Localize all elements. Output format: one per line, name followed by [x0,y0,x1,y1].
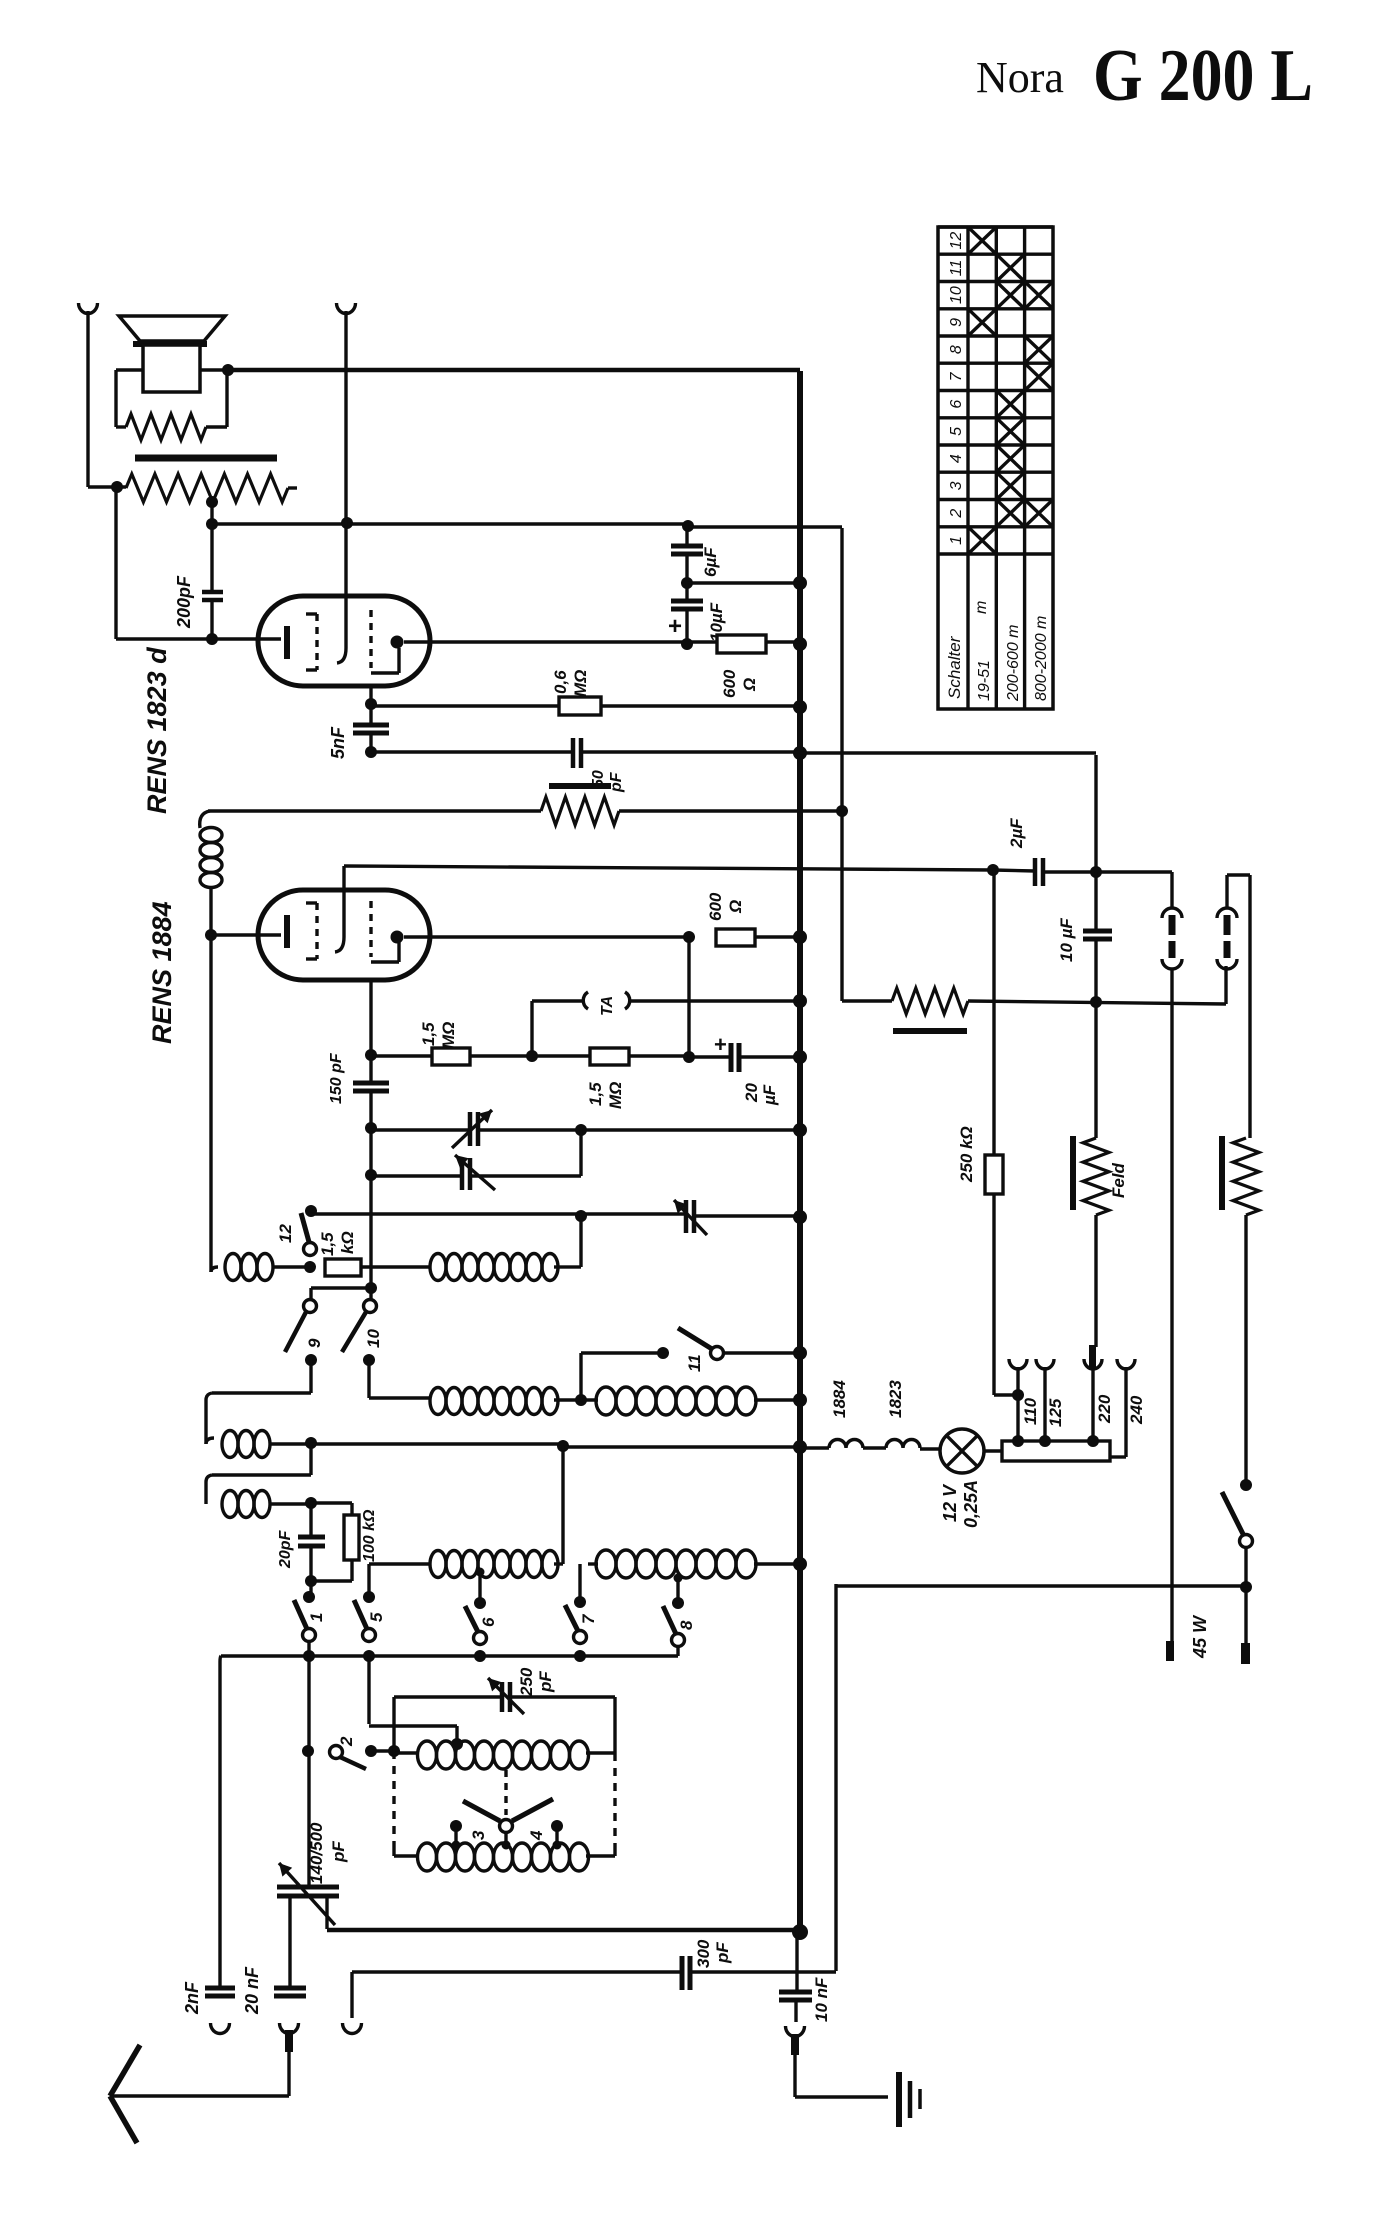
svg-text:MΩ: MΩ [606,1082,625,1109]
svg-text:0,25A: 0,25A [961,1480,981,1528]
svg-text:6: 6 [948,400,965,409]
svg-text:2: 2 [948,509,965,519]
svg-text:20: 20 [742,1083,761,1103]
svg-text:150 pF: 150 pF [328,1052,345,1104]
svg-text:6µF: 6µF [701,547,720,577]
svg-text:600: 600 [706,892,725,921]
svg-text:Ω: Ω [740,678,759,692]
svg-text:Feld: Feld [1109,1162,1128,1198]
svg-text:1,5: 1,5 [586,1082,605,1106]
svg-text:G 200 L: G 200 L [1093,35,1313,117]
svg-text:12 V: 12 V [940,1483,960,1522]
svg-text:250 kΩ: 250 kΩ [957,1126,976,1183]
svg-text:m: m [973,601,990,614]
svg-text:1,5: 1,5 [419,1022,438,1046]
svg-text:kΩ: kΩ [338,1231,357,1254]
svg-text:240: 240 [1127,1395,1146,1425]
svg-text:1: 1 [307,1613,326,1622]
svg-text:1: 1 [948,536,965,545]
svg-text:9: 9 [948,318,965,327]
svg-text:200pF: 200pF [174,575,194,629]
svg-text:+: + [714,1032,727,1057]
svg-text:10 µF: 10 µF [1057,918,1076,962]
svg-text:600: 600 [720,669,739,698]
svg-text:10: 10 [364,1329,383,1348]
svg-text:4: 4 [527,1830,546,1841]
svg-text:TA: TA [599,996,616,1016]
svg-text:2nF: 2nF [182,1981,202,2015]
svg-text:pF: pF [329,1841,348,1863]
svg-text:140/500: 140/500 [307,1822,326,1884]
svg-text:0,6: 0,6 [551,670,570,694]
svg-text:110: 110 [1021,1397,1040,1425]
svg-text:8: 8 [948,345,965,354]
svg-text:6: 6 [479,1617,498,1627]
svg-text:12: 12 [276,1224,295,1243]
svg-text:7: 7 [948,371,965,381]
svg-text:pF: pF [713,1942,732,1964]
svg-text:RENS 1884: RENS 1884 [147,901,177,1044]
svg-text:11: 11 [685,1354,704,1372]
svg-text:5nF: 5nF [328,726,348,759]
svg-text:3: 3 [469,1830,488,1840]
svg-text:4: 4 [948,454,965,463]
svg-text:19-51: 19-51 [976,660,993,701]
svg-text:MΩ: MΩ [571,670,590,697]
svg-text:800-2000 m: 800-2000 m [1033,616,1050,701]
svg-text:250: 250 [517,1667,536,1697]
svg-text:MΩ: MΩ [439,1022,458,1049]
svg-text:Nora: Nora [976,53,1064,102]
svg-text:20pF: 20pF [277,1529,294,1569]
svg-text:125: 125 [1046,1398,1065,1427]
svg-text:1884: 1884 [830,1380,849,1418]
svg-text:20 nF: 20 nF [242,1966,262,2015]
svg-text:10: 10 [948,286,965,304]
svg-text:pF: pF [608,771,625,793]
svg-text:8: 8 [677,1620,696,1630]
svg-text:220: 220 [1095,1394,1114,1424]
svg-text:100 kΩ: 100 kΩ [361,1509,378,1562]
svg-text:2µF: 2µF [1007,818,1026,849]
svg-text:Schalter: Schalter [945,635,964,699]
svg-text:200-600 m: 200-600 m [1005,625,1022,703]
svg-text:5: 5 [948,427,965,436]
svg-text:pF: pF [536,1671,555,1693]
svg-text:Ω: Ω [726,900,745,914]
svg-text:9: 9 [305,1338,324,1348]
svg-text:µF: µF [760,1084,779,1106]
svg-text:12: 12 [948,232,965,250]
svg-text:2: 2 [337,1736,356,1747]
svg-text:45 W: 45 W [1190,1614,1210,1659]
svg-text:1,5: 1,5 [318,1232,337,1256]
svg-text:5: 5 [367,1612,386,1622]
svg-text:1823: 1823 [886,1380,905,1418]
svg-text:7: 7 [579,1613,598,1624]
svg-text:11: 11 [948,260,965,277]
svg-text:3: 3 [948,481,965,490]
svg-text:300: 300 [694,1939,713,1968]
svg-text:RENS 1823 d: RENS 1823 d [142,647,172,814]
svg-text:10 nF: 10 nF [812,1977,831,2022]
svg-text:+: + [668,613,682,640]
